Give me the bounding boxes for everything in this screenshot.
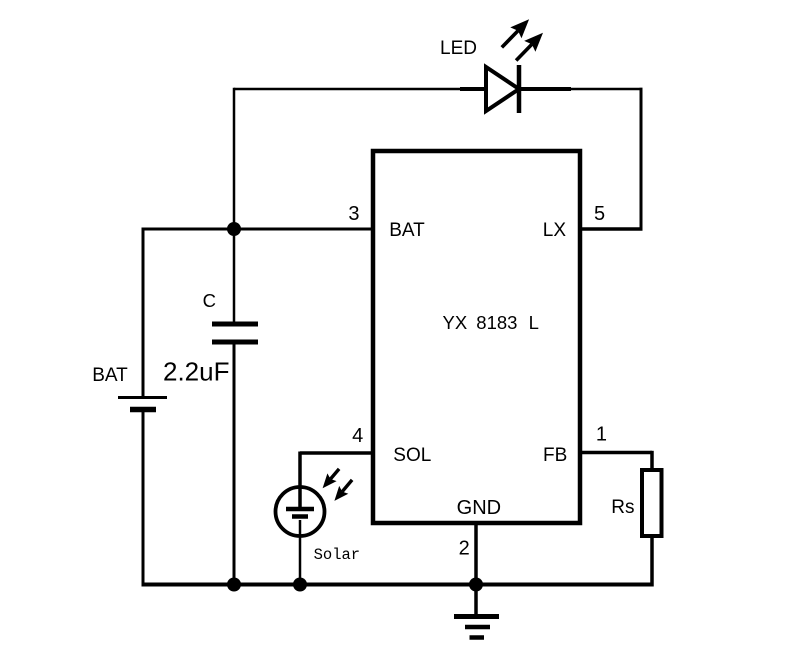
LED cathode bar: [517, 65, 522, 113]
svg-text:2: 2: [459, 538, 470, 560]
solar light arrow 1: [323, 469, 340, 488]
wire FB pin 1: [580, 451, 652, 455]
wire FB to resistor: [650, 451, 654, 472]
junction gnd / bottom rail: [469, 578, 483, 592]
wire top rail from node A to LED anode: [234, 88, 462, 91]
wire resistor to bottom rail: [650, 536, 654, 587]
capacitor C bottom plate: [212, 340, 258, 345]
svg-text:C: C: [203, 290, 216, 311]
wire LED anode lead: [460, 87, 488, 91]
svg-text:LX: LX: [543, 220, 567, 241]
capacitor C top plate: [212, 322, 258, 327]
wire capacitor to bottom rail: [233, 344, 236, 585]
ground stub: [474, 584, 478, 615]
ground bar 3: [470, 635, 485, 640]
solar light arrow 2: [334, 480, 352, 501]
svg-text:BAT: BAT: [92, 365, 128, 386]
wire LX pin 5: [580, 227, 643, 231]
svg-text:Rs: Rs: [611, 497, 634, 518]
battery BAT short plate: [130, 407, 156, 413]
svg-text:Solar: Solar: [314, 546, 361, 564]
battery BAT long plate: [118, 396, 167, 399]
ground bar 1: [454, 614, 499, 619]
wire left rail vertical upper (BAT + ): [142, 228, 145, 398]
resistor Rs body: [642, 470, 662, 536]
solar cell long plate: [286, 507, 314, 512]
wire left rail vertical lower: [142, 411, 145, 586]
LED diode triangle: [486, 67, 519, 111]
LED light arrow 2: [516, 33, 543, 61]
svg-text:LED: LED: [440, 38, 477, 59]
IC U1 YX8183L body: [373, 151, 580, 523]
LED light arrow 1: [502, 19, 529, 47]
wire bottom rail: [142, 583, 654, 587]
svg-text:BAT: BAT: [389, 220, 425, 241]
solar cell circle: [276, 487, 325, 536]
ground bar 2: [465, 625, 490, 630]
junction cap / bottom rail: [227, 578, 241, 592]
svg-text:4: 4: [352, 425, 363, 447]
wire LED cathode lead: [519, 87, 571, 91]
svg-text:2.2uF: 2.2uF: [163, 357, 230, 387]
svg-text:3: 3: [348, 203, 359, 225]
junction node A: [227, 222, 241, 236]
svg-text:5: 5: [594, 203, 605, 225]
svg-text:SOL: SOL: [393, 445, 431, 466]
svg-text:GND: GND: [457, 497, 501, 519]
svg-text:FB: FB: [543, 445, 567, 466]
wire right vertical LX to LED: [640, 88, 643, 230]
wire solar bottom lead: [299, 520, 302, 585]
wire GND pin 2: [474, 523, 478, 585]
junction solar / bottom rail: [293, 578, 307, 592]
solar cell short plate: [292, 514, 308, 519]
wire SOL pin 4: [300, 451, 373, 455]
wire LED cathode to right corner: [569, 88, 643, 91]
svg-text:1: 1: [596, 424, 607, 446]
wire BAT rail (left rail to IC pin 3): [143, 228, 374, 231]
wire node A vertical (LED loop down to cap): [233, 88, 236, 322]
wire solar top lead: [298, 452, 302, 508]
